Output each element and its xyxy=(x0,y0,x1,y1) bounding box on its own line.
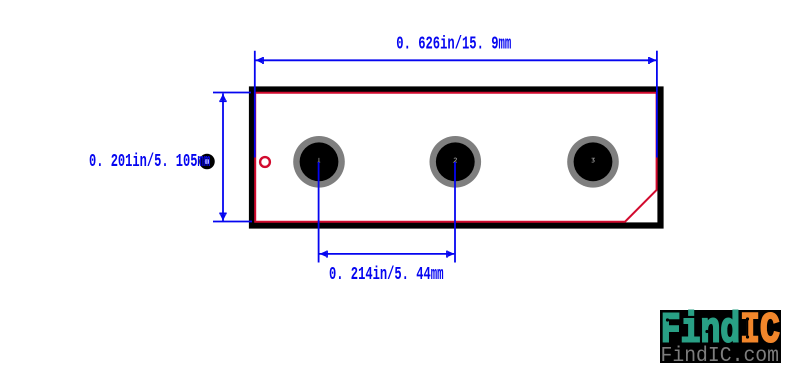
logo circuit dot on d xyxy=(727,327,730,330)
pad 2 hole xyxy=(436,142,475,181)
pad 2 number xyxy=(454,158,457,162)
pad 1 hole xyxy=(300,142,339,181)
silkscreen outline (red chamfered rect) xyxy=(255,93,656,222)
top dimension right arrow xyxy=(650,57,657,63)
svg-text:mm: mm xyxy=(499,35,512,55)
svg-text:0. 201in/5. 105: 0. 201in/5. 105 xyxy=(89,152,198,172)
pad 2 outer ring xyxy=(430,136,482,188)
svg-text:mm: mm xyxy=(431,265,444,285)
logo circuit dot on n xyxy=(705,330,708,333)
top dimension left arrow xyxy=(256,57,263,63)
logo circuit dot on C xyxy=(767,328,770,331)
left dimension line xyxy=(222,94,224,222)
mounting hole donut (black ring) xyxy=(202,156,212,166)
left dimension extension line bottom xyxy=(213,221,252,223)
left dimension bottom arrow xyxy=(220,214,226,221)
top dimension line xyxy=(256,59,657,61)
pad pitch right arrow xyxy=(448,251,455,257)
component body outline (black courtyard rect) xyxy=(252,90,661,226)
pad 3 outer ring xyxy=(567,136,619,188)
logo circuit dot on F xyxy=(666,318,669,321)
svg-text:0. 214in/5. 44: 0. 214in/5. 44 xyxy=(329,265,431,285)
pin 1 indicator (red circle) xyxy=(260,157,270,167)
left dimension top arrow xyxy=(220,94,226,101)
left dimension extension line top xyxy=(213,92,251,94)
FindIC logo background xyxy=(660,310,781,363)
svg-text:FindIC.com: FindIC.com xyxy=(661,344,780,368)
pad pitch dimension line xyxy=(319,253,454,255)
pad 1 outer ring xyxy=(293,136,345,188)
pad 1 number xyxy=(318,158,321,162)
top dimension extension line left xyxy=(254,51,256,158)
svg-text:mm: mm xyxy=(198,152,211,172)
pad 3 hole xyxy=(574,142,613,181)
pad pitch extension line from pad 2 xyxy=(454,162,456,263)
pad pitch left arrow xyxy=(320,251,327,257)
top dimension extension line right xyxy=(656,51,658,158)
svg-text:0. 626in/15. 9: 0. 626in/15. 9 xyxy=(396,35,498,55)
pad pitch extension line from pad 1 xyxy=(318,162,320,263)
logo circuit line on I xyxy=(747,319,749,337)
pad 3 number xyxy=(592,158,595,162)
